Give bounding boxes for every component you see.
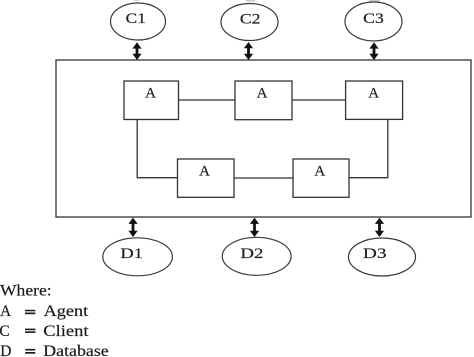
svg-text:C2: C2 (240, 12, 261, 28)
agent box A1 (124, 81, 179, 120)
legend: C = Client (0, 323, 89, 340)
system boundary rectangle (56, 60, 471, 217)
arrow system to D3 (375, 218, 384, 237)
svg-text:D: D (0, 343, 11, 357)
svg-text:A: A (145, 86, 156, 102)
arrow C1 to system (132, 42, 141, 60)
svg-text:A: A (368, 85, 379, 101)
agent box A4 (178, 159, 235, 197)
wire A2-A3 (292, 99, 346, 101)
arrow system to D1 (128, 218, 137, 237)
svg-text:D1: D1 (120, 246, 143, 262)
svg-text:A: A (0, 303, 12, 320)
database ellipse D2 (222, 237, 291, 275)
artifact mark above C1 (134, 0, 139, 1)
svg-text:Agent: Agent (44, 303, 89, 320)
svg-text:C: C (0, 323, 10, 340)
svg-text:D3: D3 (363, 246, 387, 262)
arrow system to D2 (250, 218, 259, 237)
client ellipse C2 (221, 4, 278, 41)
legend: A = Agent (0, 303, 89, 320)
svg-text:C1: C1 (126, 11, 146, 27)
wire A1-A2 (179, 99, 236, 101)
arrow C2 to system (244, 42, 253, 60)
artifact mark above C3 (369, 0, 380, 2)
svg-text:C3: C3 (363, 11, 384, 27)
svg-text:A: A (199, 164, 210, 180)
wire A1-A4 (L-shape) (137, 120, 177, 178)
artifact mark above C2 (246, 0, 255, 2)
svg-text:D2: D2 (240, 246, 263, 262)
client ellipse C1 (111, 3, 166, 40)
agent box A2 (235, 81, 292, 120)
svg-text:A: A (257, 86, 268, 102)
client ellipse C3 (345, 2, 402, 41)
svg-text:Database: Database (43, 343, 109, 357)
wire A4-A5 (234, 177, 293, 179)
wire A5-A3 (L-shape) (349, 119, 388, 177)
legend: D = Database (0, 343, 109, 357)
svg-text:Client: Client (43, 323, 89, 340)
agent box A5 (293, 159, 349, 197)
database ellipse D3 (349, 238, 416, 276)
svg-text:A: A (314, 164, 325, 180)
svg-text:Where:: Where: (0, 283, 52, 300)
agent box A3 (346, 81, 403, 119)
database ellipse D1 (103, 238, 173, 276)
arrow C3 to system (369, 42, 378, 60)
